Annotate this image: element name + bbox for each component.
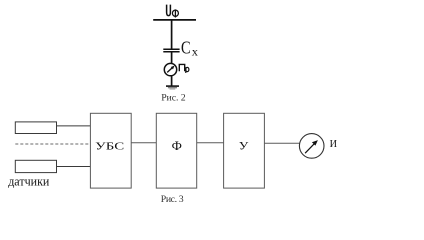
block УБС [90,113,131,188]
wire: sensor 1 to УБС [57,125,91,127]
node Uф (phase voltage label) [167,5,179,18]
svg-text:УБС: УБС [95,141,124,153]
wire: Ф to У [197,142,224,144]
sensor box 2 [15,160,56,172]
svg-text:У: У [239,141,250,153]
block У [224,113,265,188]
wire: sensor 2 to УБС [57,166,91,168]
label Пр [179,64,189,73]
label Cх [181,38,198,59]
wire: У to indicator [264,142,299,144]
ground [166,86,179,89]
dashed line: further sensors [15,143,90,145]
indicator И (meter) [299,134,324,159]
svg-text:Рис. 3: Рис. 3 [161,194,184,205]
svg-text:И: И [330,138,337,150]
meter Пр (probe device) [164,63,176,75]
wire: top bus bar [153,19,196,21]
capacitor Cх plates [163,49,179,52]
wire: probe to ground [171,76,173,86]
sensor box 1 [15,122,56,134]
svg-text:датчики: датчики [8,175,49,189]
svg-text:Рис. 2: Рис. 2 [161,93,185,104]
wire: bus to capacitor [171,20,173,48]
svg-text:Ф: Ф [172,138,182,153]
wire: capacitor to probe [171,52,173,63]
wire: УБС to Ф [131,142,156,144]
svg-text:C: C [181,38,191,58]
svg-text:х: х [192,44,198,58]
block Ф [156,113,196,188]
